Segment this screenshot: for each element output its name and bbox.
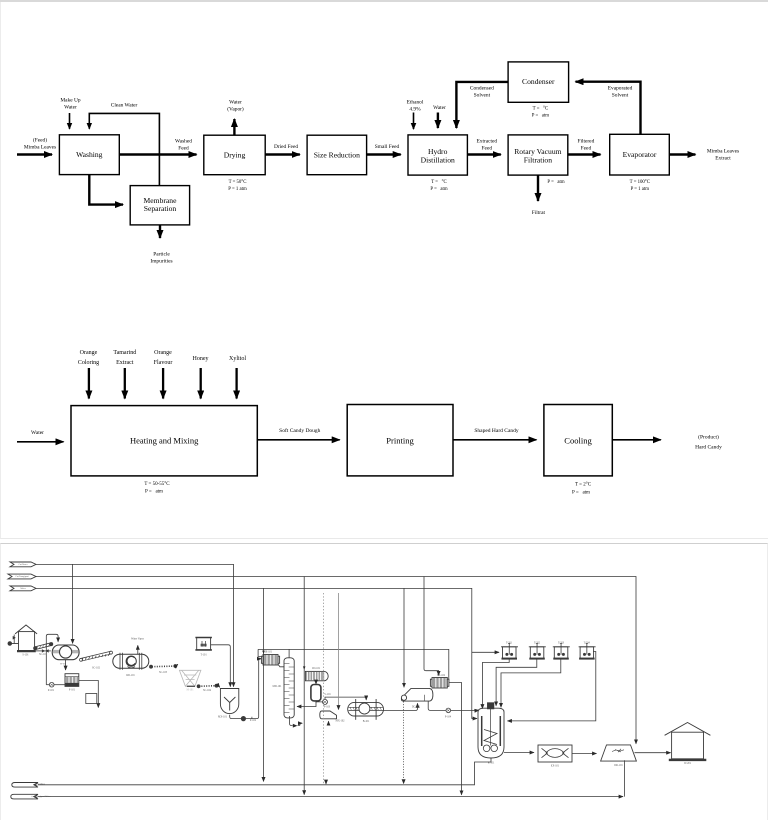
svg-text:P = atm: P = atm xyxy=(430,187,447,192)
svg-text:Drying: Drying xyxy=(224,150,246,159)
svg-text:T = °C: T = °C xyxy=(533,107,548,112)
svg-text:Cut Frangipani: Cut Frangipani xyxy=(15,575,29,578)
svg-text:(Product): (Product) xyxy=(698,434,719,441)
svg-text:T = °C: T = °C xyxy=(431,180,446,185)
svg-text:MX-101: MX-101 xyxy=(218,716,228,719)
svg-text:T-101: T-101 xyxy=(201,654,208,657)
svg-text:Small Feed: Small Feed xyxy=(375,144,400,150)
svg-text:T = 50-55°C: T = 50-55°C xyxy=(144,482,170,487)
svg-text:Flavour: Flavour xyxy=(154,360,173,366)
svg-text:Water: Water xyxy=(64,105,77,111)
svg-text:P-102: P-102 xyxy=(250,719,257,722)
svg-text:Cut Roses: Cut Roses xyxy=(19,564,28,566)
svg-text:Water: Water xyxy=(31,430,44,436)
svg-text:Extract: Extract xyxy=(715,156,731,162)
svg-text:RD-101: RD-101 xyxy=(126,674,135,677)
svg-text:Mimba Leaves: Mimba Leaves xyxy=(707,149,739,155)
svg-text:T = 100°C: T = 100°C xyxy=(630,180,650,185)
svg-text:Water: Water xyxy=(20,588,25,590)
svg-text:Hard Candy: Hard Candy xyxy=(695,445,722,451)
svg-text:F-101: F-101 xyxy=(69,689,76,692)
svg-text:MX-102: MX-102 xyxy=(336,720,346,723)
svg-text:HE-101: HE-101 xyxy=(264,651,273,654)
svg-text:Cooling: Cooling xyxy=(564,435,592,445)
svg-text:SC-101: SC-101 xyxy=(39,653,48,656)
svg-text:SC-104: SC-104 xyxy=(203,689,212,692)
svg-text:Extracted: Extracted xyxy=(476,139,497,145)
svg-text:W-201: W-201 xyxy=(684,762,692,765)
svg-text:Filtration: Filtration xyxy=(524,155,552,164)
svg-text:Solvent: Solvent xyxy=(612,93,629,99)
svg-text:Orange: Orange xyxy=(80,350,98,356)
svg-text:Solvent: Solvent xyxy=(474,93,491,99)
svg-text:R-101: R-101 xyxy=(488,762,495,765)
svg-text:Condensed: Condensed xyxy=(470,86,494,92)
svg-text:4.9%: 4.9% xyxy=(409,107,421,113)
svg-text:Feed: Feed xyxy=(178,146,189,152)
svg-text:Ethanol: Ethanol xyxy=(407,100,424,106)
svg-text:Heating and Mixing: Heating and Mixing xyxy=(130,435,199,445)
svg-text:Clean Water: Clean Water xyxy=(111,103,138,109)
svg-text:T-204: T-204 xyxy=(584,642,591,645)
svg-text:T-202: T-202 xyxy=(534,642,541,645)
svg-text:P = atm: P = atm xyxy=(145,489,163,494)
svg-text:SC-102: SC-102 xyxy=(92,667,101,670)
svg-text:Dried Feed: Dried Feed xyxy=(274,144,298,150)
svg-text:(Feed): (Feed) xyxy=(33,137,47,144)
svg-text:SC-103: SC-103 xyxy=(159,671,168,674)
svg-text:W-101: W-101 xyxy=(60,664,66,666)
svg-text:Particle: Particle xyxy=(153,252,170,258)
svg-text:DR-101: DR-101 xyxy=(614,764,623,767)
svg-text:Printing: Printing xyxy=(386,435,414,445)
svg-text:(w) Frangipani Water: (w) Frangipani Water xyxy=(32,795,51,798)
svg-text:Coloring: Coloring xyxy=(78,360,99,366)
svg-text:Size Reduction: Size Reduction xyxy=(314,150,360,159)
svg-text:P = atm: P = atm xyxy=(547,180,564,185)
svg-text:T-201: T-201 xyxy=(506,642,513,645)
svg-text:Washed: Washed xyxy=(175,139,192,145)
svg-text:T = 2°C: T = 2°C xyxy=(575,483,592,488)
svg-text:B-101: B-101 xyxy=(363,720,370,723)
svg-text:Soft Candy Dough: Soft Candy Dough xyxy=(279,427,321,434)
svg-text:Mimba Leaves: Mimba Leaves xyxy=(24,145,56,151)
svg-text:P = atm: P = atm xyxy=(572,491,590,496)
svg-text:Filtered: Filtered xyxy=(578,139,595,145)
svg-text:M-101: M-101 xyxy=(186,689,194,692)
svg-text:P = 1 atm: P = 1 atm xyxy=(228,187,247,192)
svg-text:Tamarind: Tamarind xyxy=(113,350,136,356)
svg-text:Make Up: Make Up xyxy=(60,98,81,104)
svg-text:Water Vapor: Water Vapor xyxy=(131,638,144,641)
svg-text:EX-101: EX-101 xyxy=(551,765,560,768)
svg-text:Washing: Washing xyxy=(76,150,103,159)
svg-text:(Vapor): (Vapor) xyxy=(227,106,244,113)
svg-text:Orange: Orange xyxy=(154,350,172,356)
svg-text:T = 50°C: T = 50°C xyxy=(229,180,247,185)
svg-text:DC-101: DC-101 xyxy=(412,706,421,709)
svg-text:Honey: Honey xyxy=(193,356,209,362)
svg-text:P = atm: P = atm xyxy=(532,114,549,119)
svg-text:P-101: P-101 xyxy=(48,689,55,692)
svg-text:P-104: P-104 xyxy=(445,716,452,719)
svg-text:MD-101: MD-101 xyxy=(273,685,283,688)
svg-text:Water: Water xyxy=(229,100,242,106)
svg-text:Evaporator: Evaporator xyxy=(623,150,657,159)
svg-text:Residues: Residues xyxy=(37,783,45,785)
svg-text:HE-102: HE-102 xyxy=(437,674,446,677)
svg-text:Feed: Feed xyxy=(482,146,493,152)
svg-text:S-101: S-101 xyxy=(22,654,29,657)
svg-text:P-103: P-103 xyxy=(324,706,331,709)
svg-text:CD-101: CD-101 xyxy=(312,667,321,670)
svg-text:Feed: Feed xyxy=(581,146,592,152)
svg-text:Distillation: Distillation xyxy=(421,155,455,164)
svg-text:Shaped Hard Candy: Shaped Hard Candy xyxy=(474,428,519,434)
svg-text:T-203: T-203 xyxy=(558,642,565,645)
svg-text:P = 1 atm: P = 1 atm xyxy=(631,187,650,192)
svg-text:Filtrat: Filtrat xyxy=(532,210,546,216)
svg-text:Extract: Extract xyxy=(116,360,134,366)
svg-text:Impurities: Impurities xyxy=(150,259,172,265)
svg-text:Evaporated: Evaporated xyxy=(608,86,633,92)
svg-text:Condenser: Condenser xyxy=(522,77,555,86)
svg-text:Separation: Separation xyxy=(144,204,177,213)
svg-text:V-101: V-101 xyxy=(324,693,331,696)
svg-text:Xylitol: Xylitol xyxy=(229,356,246,362)
svg-text:Water: Water xyxy=(433,105,446,111)
